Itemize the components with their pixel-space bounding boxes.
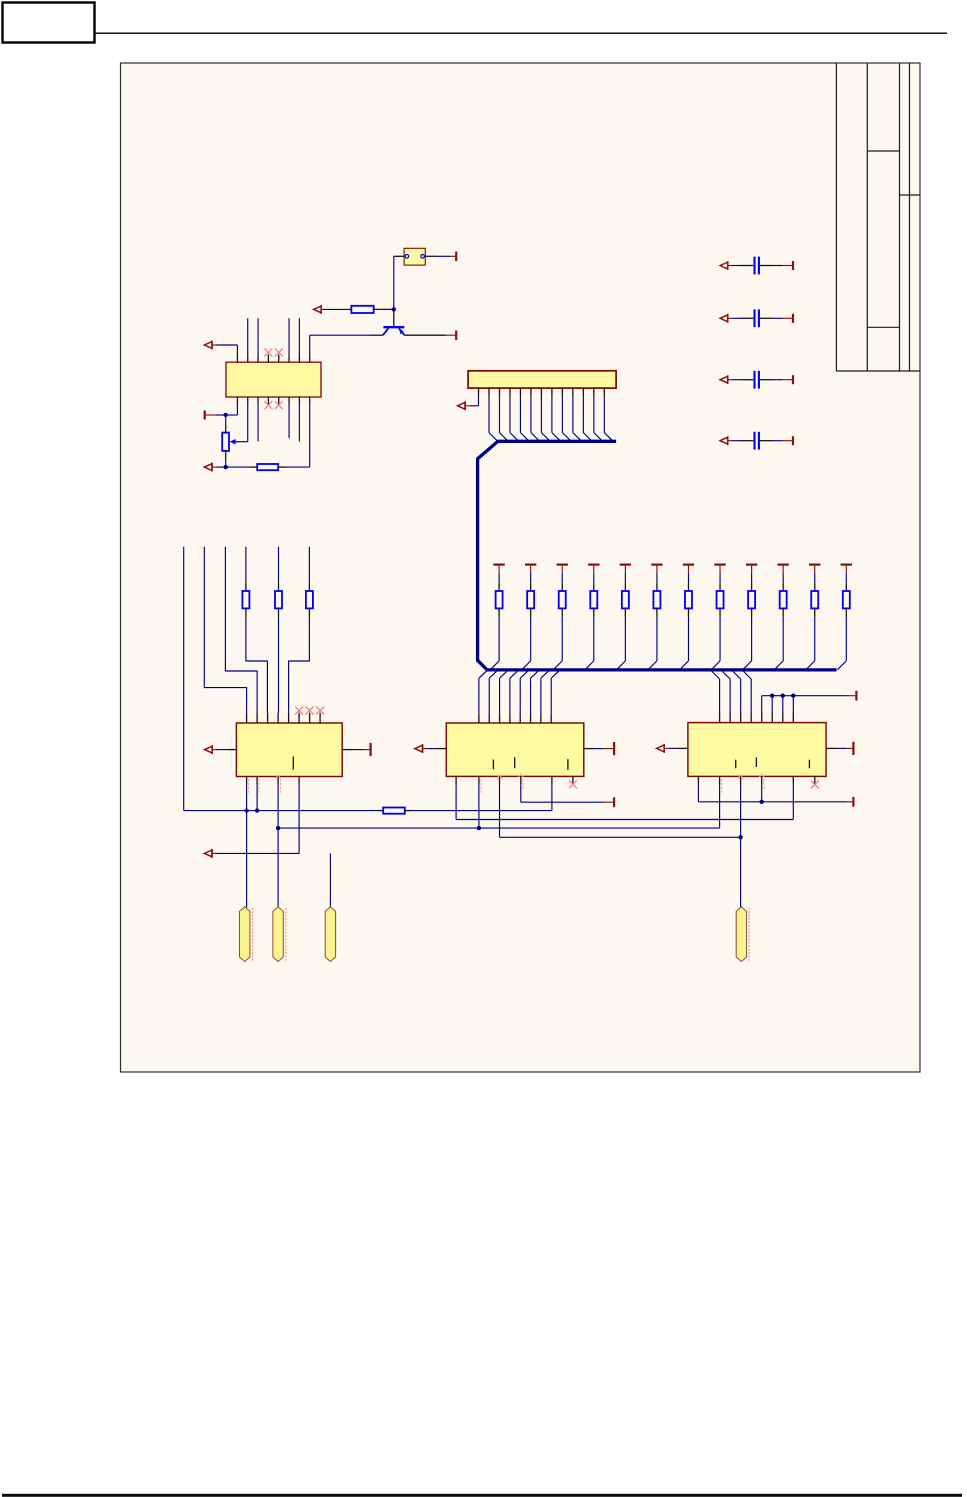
junction H <box>738 835 742 839</box>
wire R3 to bus <box>498 608 500 617</box>
title block divider a <box>867 150 899 152</box>
junction B <box>224 413 228 417</box>
wire U2 pin3 up <box>257 318 259 354</box>
no-connect X U2 pin12 <box>264 401 272 409</box>
no-connect X U3 pin6 <box>295 707 303 715</box>
wire U5 pin2 to bus <box>729 679 731 712</box>
wire U4 pin3 to bus <box>499 678 501 713</box>
terminal T7 (top T-port) <box>557 563 568 565</box>
wire net L3 <box>225 547 257 713</box>
wire J1 pin2 to bus <box>488 397 490 432</box>
wire U3 pin11 down to junction F <box>277 784 279 828</box>
resistor R6 <box>590 591 597 608</box>
junction F <box>276 826 280 830</box>
wire C1 right to terminal <box>760 265 772 267</box>
resistor R18 <box>383 808 405 814</box>
transistor Q1 (PNP) <box>383 326 404 328</box>
wire R8 to bus <box>656 608 658 617</box>
title block divider c <box>867 326 899 328</box>
capacitor C3 <box>753 371 755 389</box>
terminal T11 (top T-port) <box>683 563 694 565</box>
terminal T19 <box>613 797 615 807</box>
IC U5 <box>688 723 826 777</box>
wire U5 pin7 to N5 <box>782 696 784 713</box>
no-connect X U2 pin4 <box>264 348 272 356</box>
resistor R8 <box>653 591 660 608</box>
wire R6 to bus <box>593 608 595 617</box>
schematic sheet background/frame <box>121 63 921 1072</box>
page corner box (top-left) <box>3 3 95 43</box>
U2 top pin stubs <box>236 355 238 363</box>
resistor R14 <box>843 591 850 608</box>
wire R4 to bus <box>530 608 532 617</box>
port P10 (cap arrow) <box>720 315 728 322</box>
resistor R13 <box>811 591 818 608</box>
port P6 (bottom-left arrow) <box>204 850 212 857</box>
port P11 (cap arrow) <box>720 376 728 383</box>
wire RP1 bottom to junction C <box>225 451 227 459</box>
wire U4 pin6 to bus <box>530 678 532 713</box>
wire U4 pin4 to bus <box>509 678 511 713</box>
wire U4 pin1 to bus <box>478 678 480 713</box>
wire U2 pin2 up <box>247 318 249 354</box>
resistor R9 <box>685 591 692 608</box>
U5 top pin stubs <box>719 712 721 722</box>
wire R9 to bus <box>687 608 689 617</box>
U5 pin designator marks (faint) <box>721 779 723 793</box>
wire J1 pin4 to bus <box>509 397 511 432</box>
terminal T17 <box>370 743 372 756</box>
wire P3 to junction C <box>212 466 217 468</box>
wire P1 to R1 <box>322 308 351 310</box>
port P1 (left arrow) <box>314 306 322 313</box>
wire U1 pin1 to node <box>394 255 404 257</box>
junction I <box>770 694 774 698</box>
port P3 (left arrow bottom) <box>204 464 212 471</box>
terminal T13 (top T-port) <box>746 563 757 565</box>
U3 label glyph <box>292 757 294 770</box>
wire U4 pin11 to net N4 <box>499 784 501 837</box>
title block vertical line 1 <box>835 63 837 371</box>
wire node down to junction <box>393 256 395 309</box>
wire U2 pin9 down to junction B <box>236 405 238 415</box>
wire junction D to testpoint TP1 <box>246 811 248 908</box>
wire U5 pin down through junction H to testpoint TP4 <box>740 785 742 908</box>
wire J1 pin10 to bus <box>572 397 574 432</box>
port P9 (cap arrow) <box>720 262 728 269</box>
wire net N1 right segment to U4 pin <box>405 810 411 812</box>
wire C2 right to terminal <box>760 317 772 319</box>
wire J1 pin7 to bus <box>540 397 542 432</box>
title block vertical line 2 <box>866 63 868 371</box>
wire U5 pin4 to bus <box>750 679 752 712</box>
resistor R4 <box>527 591 534 608</box>
wire to testpoint TP3 <box>329 853 331 907</box>
wire net N6 (y802) to terminal <box>698 801 846 803</box>
resistor R5 <box>559 591 566 608</box>
wire T to R3 <box>498 573 500 582</box>
wire U3 pin10 down <box>256 784 258 810</box>
wire J1 pin6 to bus <box>530 397 532 432</box>
resistor R10 <box>717 591 724 608</box>
wire T to R14 <box>845 573 847 582</box>
no-connect X U5 pin14 <box>811 781 819 789</box>
terminal TC4 <box>792 436 794 445</box>
IC U2 <box>226 362 321 397</box>
wire U5 pin1 to bus <box>719 679 721 712</box>
U4 top pin stubs <box>478 713 480 723</box>
wire U5 pin12 to junction L <box>761 785 763 802</box>
terminal T15 (top T-port) <box>809 563 820 565</box>
port P2 (left arrow) <box>204 342 212 349</box>
port P8 (U5 left arrow) <box>657 745 665 752</box>
wire T to R5 <box>561 573 563 582</box>
wire P5 to U3 <box>212 749 216 751</box>
wire junction B to RP1 <box>225 415 227 425</box>
resistor R16 <box>275 591 282 608</box>
wire net L2 <box>204 547 246 713</box>
wire P2 to U2 pin1 <box>212 344 217 346</box>
wire Q1 emitter to terminal <box>405 334 446 336</box>
port P4 (left arrow) <box>458 402 466 409</box>
terminal T10 (top T-port) <box>651 563 662 565</box>
wire net N3 (y828) <box>278 827 719 829</box>
wire U3 right pin to terminal <box>342 749 353 751</box>
wire to C4 left <box>728 440 732 442</box>
wire U2 pin11 down <box>257 405 259 442</box>
U3 top pin stubs <box>246 713 248 723</box>
connector J1 <box>468 371 616 388</box>
capacitor C1 <box>753 257 755 275</box>
junction G <box>477 826 481 830</box>
no-connect X U3 pin8 <box>316 707 324 715</box>
junction K <box>791 694 795 698</box>
wire J1 pin3 to bus <box>498 397 500 432</box>
wire net N2 (y819) <box>456 819 793 821</box>
wire J1 pin11 to bus <box>582 397 584 432</box>
no-connect X U4 pin14 <box>569 780 577 788</box>
testpoint TP2 <box>273 907 283 962</box>
terminal T6 (top T-port) <box>525 563 536 565</box>
IC U3 <box>236 723 342 777</box>
testpoint TP4 <box>736 907 746 962</box>
wire T to R11 <box>751 573 753 582</box>
port P7 (U4 left arrow) <box>415 745 423 752</box>
terminal T9 (top T-port) <box>620 563 631 565</box>
no-connect X U2 pin13 <box>275 401 283 409</box>
terminal T3 (left T) <box>204 411 206 420</box>
resistor R1 <box>351 306 373 313</box>
wire U5 pin3 to bus <box>740 679 742 712</box>
capacitor C4 <box>753 432 755 450</box>
terminal T5 (top T-port) <box>493 563 504 565</box>
wire net L5 upper <box>278 547 280 583</box>
U4 label glyphs <box>492 760 494 770</box>
wire junction C to R2 <box>226 466 250 468</box>
wire junction F to testpoint TP2 <box>277 828 279 907</box>
U3 bottom pin stubs <box>246 777 248 785</box>
wire net L6 lower <box>308 608 310 617</box>
wire R7 to bus <box>624 608 626 617</box>
component U1 (small 2-pin part) <box>404 248 425 265</box>
wire J1 pin8 to bus <box>551 397 553 432</box>
wire T to R13 <box>814 573 816 582</box>
wire R11 to bus <box>751 608 753 617</box>
bus (thick harness) <box>478 441 837 670</box>
wire to C2 left <box>728 317 732 319</box>
wire U5 right pin to terminal <box>826 747 837 749</box>
resistor R3 <box>496 591 503 608</box>
wire to C1 left <box>728 265 732 267</box>
wire net L6 upper <box>308 547 310 583</box>
wire U2 pin6 up <box>288 318 290 354</box>
wire T to R4 <box>530 573 532 582</box>
wire T to R6 <box>593 573 595 582</box>
wire T to R12 <box>782 573 784 582</box>
junction L <box>760 800 764 804</box>
junction J <box>781 694 785 698</box>
wire T to R8 <box>656 573 658 582</box>
terminal TC1 <box>792 261 794 270</box>
wire U4 pin10 to junction G <box>478 784 480 828</box>
wire net L5 lower <box>278 608 280 617</box>
junction E <box>255 808 259 812</box>
U5 label glyphs <box>735 760 737 769</box>
capacitor C2 <box>753 309 755 327</box>
terminal TC2 <box>792 314 794 323</box>
wire U3 pin12 to P6 <box>212 852 217 854</box>
terminal T14 (top T-port) <box>777 563 788 565</box>
wire T3 to junction B <box>216 414 226 416</box>
terminal T22 <box>852 797 854 807</box>
RP1 wiper arrow <box>230 439 236 444</box>
resistor R11 <box>748 591 755 608</box>
resistor R17 <box>306 591 313 608</box>
wire net L4 upper <box>245 547 247 583</box>
terminal T12 (top T-port) <box>714 563 725 565</box>
wire U4 right pin to terminal <box>584 748 595 750</box>
port P12 (cap arrow) <box>720 437 728 444</box>
wire J1 pin1 to P4 <box>466 405 470 407</box>
wire U2 pin14 down <box>288 405 290 439</box>
wire T to R9 <box>687 573 689 582</box>
junction node A <box>392 307 396 311</box>
wire U4 pin2 to bus <box>488 678 490 713</box>
wire U3 pin9 down to junction D <box>246 784 248 810</box>
wire U2 pin7 up <box>298 318 300 354</box>
wire C3 right to terminal <box>760 379 772 381</box>
terminal T8 (top T-port) <box>588 563 599 565</box>
U4 pin designator marks (faint) <box>480 779 482 793</box>
resistor R15 <box>242 591 249 608</box>
terminal T21 <box>852 742 854 755</box>
resistor R12 <box>780 591 787 608</box>
wire net N4 (y837) <box>500 836 741 838</box>
resistor R7 <box>622 591 629 608</box>
wire T to R7 <box>624 573 626 582</box>
wire R2 to U2 pin16 <box>278 466 286 468</box>
wire R1 to junction <box>374 308 394 310</box>
wire net N1 (y810) left segment <box>184 810 377 812</box>
wire wiper to U2 pin10 <box>238 441 248 443</box>
testpoint TP3 <box>325 907 335 962</box>
wire T to R10 <box>719 573 721 582</box>
wire J1 pin5 to bus <box>519 397 521 432</box>
wire U5 pin9 to net N6 <box>697 785 699 802</box>
wire U5 pin8 to N5 <box>792 696 794 713</box>
wire R14 to bus <box>845 608 847 617</box>
wire C4 right to terminal <box>760 440 772 442</box>
junction C <box>224 465 228 469</box>
terminal T18 <box>613 742 615 755</box>
wire to C3 left <box>728 379 732 381</box>
wire R13 to bus <box>814 608 816 617</box>
wire U4 pin9 to net N2 <box>455 784 457 819</box>
IC U4 <box>446 723 584 776</box>
J1 pin stubs <box>478 388 480 397</box>
wire U2 pin15 down <box>298 405 300 442</box>
top horizontal rule <box>95 32 947 34</box>
wire J1 pin12 to bus <box>593 397 595 432</box>
wire U4 pin8 to bus <box>550 678 552 713</box>
port P5 (U3 left arrow) <box>205 746 213 753</box>
terminal T16 (top T-port) <box>841 563 852 565</box>
title block vertical line 3 <box>899 63 901 371</box>
potentiometer RP1 <box>222 433 229 451</box>
wire J1 pin9 to bus <box>561 397 563 432</box>
terminal T2 <box>455 330 457 340</box>
wire Q1 collector to U2 pin8 <box>371 334 383 336</box>
U2 bottom pin stubs <box>236 397 238 405</box>
wire R10 to bus <box>719 608 721 617</box>
wire J1 pin13 to bus <box>603 397 605 432</box>
wire net L4 lower <box>245 608 247 617</box>
title block bottom line <box>836 370 920 372</box>
wire U5 pin6 to N5 <box>771 696 773 713</box>
title block vertical line 4 <box>909 63 911 371</box>
wire P7 to U4 <box>423 748 427 750</box>
wire net N5 (y696) to terminal <box>762 695 847 697</box>
resistor R2 <box>257 464 278 470</box>
terminal T1 <box>455 252 457 261</box>
wire R12 to bus <box>782 608 784 617</box>
wire junction to Q1 base <box>393 309 395 326</box>
wire U5 pin5 to net N5 <box>761 696 763 713</box>
wire U4 pin7 to bus <box>540 678 542 713</box>
wire U4 pin5 to bus <box>519 678 521 713</box>
terminal T20 <box>855 691 857 701</box>
title block divider b <box>900 194 921 196</box>
wire P8 to U5 <box>664 747 668 749</box>
U3 pin designator marks (faint) <box>248 779 250 793</box>
no-connect X U2 pin5 <box>275 348 283 356</box>
wire U1 pin2 to terminal <box>425 255 436 257</box>
testpoint TP1 <box>240 907 250 962</box>
terminal TC3 <box>792 375 794 384</box>
U5 bottom pin stubs <box>697 776 699 785</box>
wire R5 to bus <box>561 608 563 617</box>
page footer rule <box>2 1494 962 1497</box>
wire U4 pin12 to terminal <box>520 784 522 802</box>
wire net L1 (far left vertical) <box>183 547 185 811</box>
junction D (red) <box>244 808 248 812</box>
U4 bottom pin stubs <box>455 776 457 784</box>
no-connect X U3 pin7 <box>306 707 314 715</box>
